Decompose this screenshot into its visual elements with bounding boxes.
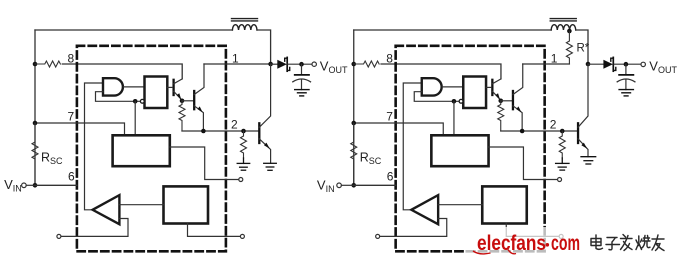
svg-text:7: 7 <box>68 109 75 123</box>
wire timing capacitor pin <box>489 147 558 180</box>
node oscillator/latch <box>452 99 457 104</box>
wire pin 6 <box>35 184 77 186</box>
terminal timing cap <box>558 178 562 182</box>
node Q1 emitter / Q2 base <box>180 99 185 104</box>
wire pin 2 <box>501 130 578 132</box>
oscillator box <box>113 135 170 166</box>
svg-text:com: com <box>551 232 580 255</box>
wire top supply (right) <box>354 29 551 31</box>
terminal VOUT <box>641 62 645 66</box>
resistor Q2 base-emitter <box>179 101 185 131</box>
inverting bubble <box>459 99 463 103</box>
wire reference bottom pin <box>188 224 241 237</box>
ground ext base resistor <box>237 158 250 170</box>
node inductor tap <box>567 29 572 34</box>
svg-text:2: 2 <box>231 118 238 132</box>
reference box <box>164 186 209 223</box>
logo elecfans <box>473 232 580 255</box>
node diode anode <box>586 62 591 67</box>
wire oscillator clock <box>453 101 455 135</box>
transistor Q3 external <box>259 64 270 163</box>
wire AND output <box>124 86 145 88</box>
and gate U1 <box>103 78 123 95</box>
wire oscillator clock <box>134 101 136 135</box>
wire reference to comparator <box>119 204 163 206</box>
wire VIN to rail <box>341 184 353 186</box>
node VIN <box>351 183 356 188</box>
node rail/pin8 <box>33 62 38 67</box>
wire pin 8 to Q1 collector <box>62 64 182 79</box>
node Q1 emitter / Q2 base <box>498 99 503 104</box>
comparator U2 <box>411 195 438 224</box>
node VIN <box>33 183 38 188</box>
ground output cap <box>295 90 309 96</box>
label chinese 电子发烧友 <box>591 235 664 251</box>
terminal timing cap <box>239 178 243 182</box>
svg-text:2: 2 <box>550 118 557 132</box>
wire comparator inverting input <box>61 219 128 237</box>
latch box <box>145 77 168 109</box>
inverting bubble <box>140 99 144 103</box>
wire left input rail <box>34 30 36 185</box>
node output cap <box>624 62 629 67</box>
capacitor Co (polarized) <box>617 64 635 89</box>
watermark overlay <box>466 227 680 258</box>
wire timing capacitor pin <box>170 147 239 180</box>
node diode anode <box>268 62 273 67</box>
transistor Q2 <box>194 64 204 131</box>
svg-text:1: 1 <box>232 51 239 65</box>
and gate U1 <box>422 78 442 95</box>
terminal feedback <box>57 234 61 238</box>
wire comparator output to AND gate input <box>85 83 104 210</box>
svg-text:6: 6 <box>68 169 75 183</box>
wire pin 2 <box>182 130 259 132</box>
terminal reference pin <box>240 234 244 238</box>
capacitor Co (polarized) <box>293 64 311 89</box>
terminal reference pin <box>559 234 563 238</box>
wire reference bottom pin <box>506 224 559 237</box>
svg-text:8: 8 <box>68 52 75 66</box>
transistor Q2 <box>513 64 523 131</box>
wire VIN to rail <box>26 184 35 186</box>
wire pin 7 <box>35 123 125 135</box>
diode D1 schottky <box>271 57 313 71</box>
wire AND output <box>442 86 463 88</box>
wire pin 8 to Q1 collector <box>381 64 501 79</box>
IC dashed box (left) <box>77 46 226 252</box>
wire AND lower input loop <box>96 92 141 102</box>
wire inductor to diode node <box>257 30 271 64</box>
oscillator box <box>431 135 488 166</box>
node output cap <box>299 62 304 67</box>
transistor Q1 <box>167 79 182 100</box>
svg-text:7: 7 <box>386 109 393 123</box>
node rail/pin8 <box>351 62 356 67</box>
ground ext base resistor <box>556 158 569 170</box>
wire AND lower input loop <box>414 92 459 102</box>
resistor ext base <box>241 131 247 158</box>
wire pin 7 <box>354 123 444 135</box>
svg-text:1: 1 <box>551 51 558 65</box>
wire pin 1 <box>204 63 271 65</box>
resistor ext base <box>559 131 565 158</box>
reference box <box>482 186 527 223</box>
latch box <box>463 77 486 109</box>
node Q2 emitter on pin2 <box>520 129 525 134</box>
IC dashed box (right) <box>396 46 545 252</box>
node ext transistor base <box>560 129 565 134</box>
resistor Q2 base-emitter <box>498 101 504 131</box>
ground ext transistor emitter <box>581 157 596 164</box>
terminal feedback <box>376 234 380 238</box>
wire comparator output to AND gate input <box>403 83 422 210</box>
node pin7 <box>33 121 38 126</box>
wire Q2 base <box>182 100 193 102</box>
terminal VIN <box>337 183 342 188</box>
terminal VOUT <box>312 62 316 66</box>
node ext transistor base <box>241 129 246 134</box>
inductor L2 <box>550 19 576 30</box>
transistor Q3 external <box>578 64 588 157</box>
resistor R* <box>566 31 572 64</box>
ground output cap <box>619 90 633 96</box>
diode D2 schottky <box>588 57 641 71</box>
wire pin 6 <box>354 184 396 186</box>
svg-text:elecfans: elecfans <box>477 232 546 255</box>
wire pin 1 <box>523 63 570 65</box>
node Q2 emitter on pin2 <box>201 129 206 134</box>
wire top supply (left) <box>35 29 232 31</box>
wire right input rail <box>353 30 355 185</box>
ground ext transistor emitter <box>264 163 277 170</box>
node oscillator/latch <box>133 99 138 104</box>
transistor Q1 <box>486 79 501 100</box>
node pin7 <box>351 121 356 126</box>
terminal VIN <box>22 183 27 188</box>
wire inductor to diode node <box>576 30 588 64</box>
resistor (pin 8 drive) <box>35 61 60 67</box>
svg-text:8: 8 <box>386 52 393 66</box>
wire reference to comparator <box>438 204 482 206</box>
resistor (pin 8 drive) <box>354 61 379 67</box>
wire Q2 base <box>501 100 512 102</box>
wire comparator inverting input <box>380 219 447 237</box>
inductor L1 <box>232 19 258 30</box>
resistor RSC <box>32 123 38 185</box>
comparator U2 <box>93 195 120 224</box>
resistor RSC <box>351 123 357 185</box>
svg-text:6: 6 <box>387 169 394 183</box>
